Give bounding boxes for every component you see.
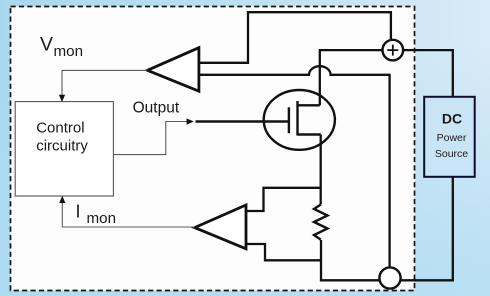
system boundary (dashed box): [11, 7, 415, 291]
wire: I_mon output to control circuitry (thin, arrow): [62, 202, 194, 227]
wire: summing node (+) to MOSFET drain: [320, 50, 383, 105]
svg-text:mon: mon: [87, 210, 117, 227]
DC power source box: [424, 97, 475, 177]
svg-text:DC: DC: [442, 111, 462, 127]
resistor R (current sense): [314, 205, 328, 240]
MOSFET Q1 body circle: [264, 90, 335, 150]
svg-text:I: I: [76, 202, 81, 222]
MOSFET Q1 source lead: [298, 133, 321, 135]
wire: control circuitry output to gate (thin, arrow): [113, 122, 187, 155]
wire: DC power source to negative terminal: [401, 177, 453, 280]
MOSFET Q1 channel bar: [296, 101, 298, 136]
MOSFET Q1 gate bar: [288, 107, 290, 133]
wire: summing node (+) to DC power source: [403, 50, 453, 97]
op-amp: I_mon sense amplifier: [195, 205, 246, 249]
svg-text:V: V: [40, 33, 53, 55]
wire: gate drive (thick) to MOSFET gate: [196, 120, 290, 122]
op-amp: V_mon sense amplifier: [147, 48, 199, 91]
svg-text:mon: mon: [54, 43, 84, 60]
svg-text:Output: Output: [133, 100, 180, 117]
svg-text:Power: Power: [437, 132, 467, 144]
wire: I_mon amp bottom input tap (below resistor): [246, 244, 321, 260]
wire: V_mon amp top input to summing node (+): [199, 12, 391, 63]
wire: negative terminal to resistor bottom: [321, 240, 380, 280]
wire: V_mon output to control circuitry (thin, arrow): [62, 70, 147, 96]
wire: I_mon amp top input tap (above resistor): [246, 188, 321, 211]
MOSFET Q1 drain lead: [298, 104, 320, 106]
control circuitry box: [15, 102, 113, 196]
node: summing junction (+) positive terminal: [383, 40, 404, 61]
wire: V_mon amp bottom input to negative terminal (with hop over drain wire): [199, 66, 390, 267]
node: negative terminal circle: [379, 267, 400, 288]
svg-text:Control: Control: [36, 120, 84, 137]
svg-text:Source: Source: [435, 148, 468, 160]
svg-text:circuitry: circuitry: [36, 138, 88, 155]
wire: MOSFET source to resistor top: [320, 135, 322, 205]
